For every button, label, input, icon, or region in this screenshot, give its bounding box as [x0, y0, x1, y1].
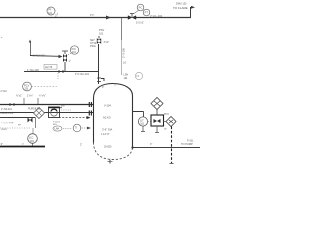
- wire dotted signal y=128: [0, 127, 31, 129]
- svg-text:101: 101: [72, 51, 77, 54]
- node flange ticks: [97, 77, 101, 79]
- meter box with rotor: [49, 107, 60, 118]
- svg-text:1"x¾": 1"x¾": [27, 95, 33, 98]
- svg-text:PSIG: PSIG: [90, 45, 96, 48]
- svg-text:3": 3": [102, 86, 104, 89]
- svg-text:TO FLARE: TO FLARE: [173, 6, 188, 10]
- svg-text:PT: PT: [145, 10, 149, 14]
- node boxed text above line: [44, 65, 57, 70]
- valve below line at x=30: [28, 118, 33, 123]
- wire bottom right line y=147: [133, 147, 201, 149]
- svg-text:3"x4": 3"x4": [104, 41, 110, 44]
- wire valve down: [64, 62, 66, 72]
- wire nozzle right y=112: [133, 111, 144, 113]
- instrument faint circle: [135, 72, 142, 79]
- svg-text:x 12'-0": x 12'-0": [101, 132, 110, 136]
- wire dashes to bubble: [63, 127, 72, 129]
- svg-text:PC: PC: [139, 5, 143, 9]
- svg-text:VENT: VENT: [1, 129, 7, 131]
- wire stub bubble: [32, 128, 34, 134]
- svg-text:3": 3": [150, 143, 152, 146]
- wire flare header right: [136, 17, 191, 19]
- wire flare header left: [0, 17, 129, 19]
- vessel bottom head dashed: [94, 143, 133, 160]
- wire box to right diamond: [164, 121, 167, 123]
- svg-text:101: 101: [48, 11, 53, 15]
- wire dashed signal y=117.5 to vessel: [52, 117, 87, 119]
- vessel V-101: [94, 84, 133, 148]
- svg-text:2"-N2: 2"-N2: [1, 90, 8, 93]
- svg-text:2": 2": [80, 144, 82, 147]
- svg-text:N2 KO: N2 KO: [103, 116, 111, 120]
- svg-text:201: 201: [25, 88, 30, 91]
- instrument PV bubble A: [137, 4, 144, 11]
- svg-text:1": 1": [69, 60, 71, 63]
- svg-text:101: 101: [140, 123, 145, 126]
- svg-text:2"-N2-101: 2"-N2-101: [1, 108, 12, 111]
- svg-text:P-101: P-101: [187, 140, 194, 143]
- valve PV vertical control valve: [62, 50, 68, 52]
- svg-text:LIC: LIC: [29, 135, 33, 139]
- svg-text:PSV: PSV: [99, 28, 104, 32]
- svg-text:PCV: PCV: [164, 113, 169, 116]
- svg-text:TO PUMP: TO PUMP: [181, 142, 193, 146]
- svg-text:1½": 1½": [90, 13, 94, 17]
- control box: [151, 115, 164, 126]
- wire signal to bubbles: [134, 10, 139, 14]
- svg-text:2"-FL-101: 2"-FL-101: [150, 14, 163, 18]
- svg-text:DWG 102: DWG 102: [176, 3, 187, 6]
- svg-text:LAH: LAH: [55, 128, 60, 131]
- svg-text:TI: TI: [75, 126, 77, 129]
- svg-text:FM: FM: [61, 105, 64, 108]
- flow arrow on flare header: [106, 16, 111, 20]
- svg-text:TT-101: TT-101: [53, 122, 61, 124]
- wire second line y=113 right: [45, 112, 94, 114]
- svg-text:1"-N2-102: 1"-N2-102: [33, 54, 45, 58]
- instrument LIC bubble: [28, 134, 38, 144]
- svg-text:3": 3": [1, 142, 3, 146]
- node oval tag: [53, 126, 62, 131]
- instrument bubble PIC-201: [23, 82, 32, 91]
- diamond right: [166, 117, 176, 127]
- instrument bubble TI: [73, 124, 81, 132]
- wire stub a: [23, 98, 25, 105]
- wire stub b: [37, 98, 39, 105]
- wire vertical drop x=121: [121, 18, 123, 40]
- wire bottom left thick line: [0, 146, 45, 148]
- svg-text:101: 101: [124, 77, 129, 80]
- svg-text:2"-V-100: 2"-V-100: [122, 47, 126, 58]
- wire down to gauge: [143, 112, 145, 118]
- wire below box: [156, 126, 158, 133]
- svg-text:V-104: V-104: [104, 104, 111, 108]
- wire N2 riser with arrow: [30, 41, 32, 56]
- wire dashed drop from right diamond: [171, 127, 173, 164]
- svg-text:1½"x1": 1½"x1": [136, 21, 144, 25]
- wire vertical drop x=35.5: [35, 118, 37, 128]
- node left flange blobs: [88, 102, 90, 107]
- instrument LG bubble: [138, 117, 147, 126]
- wire N2 header y=71.5: [24, 71, 99, 73]
- svg-text:LG: LG: [123, 62, 126, 65]
- svg-text:½": ½": [164, 127, 167, 131]
- svg-text:101: 101: [99, 32, 104, 36]
- wire dashes gauge to box: [148, 121, 151, 123]
- wire second line y=113 left: [0, 112, 34, 114]
- node top nozzle mark: [101, 79, 104, 82]
- svg-text:PI: PI: [49, 8, 52, 12]
- svg-text:1½"-N2-101: 1½"-N2-101: [75, 72, 89, 76]
- instrument PV bubble B: [143, 9, 150, 16]
- node bottom mark: [170, 163, 174, 165]
- valve FV-100: [128, 16, 136, 20]
- svg-text:30 600: 30 600: [104, 146, 112, 149]
- svg-text:1"-N2-103: 1"-N2-103: [27, 68, 39, 72]
- relief valve PSV-101: [98, 36, 100, 39]
- wire diamond to box: [156, 110, 158, 116]
- wire main N2 line y=104.5: [0, 104, 94, 106]
- filter strainer diamond: [34, 108, 45, 119]
- svg-text:¾"x½": ¾"x½": [39, 94, 46, 98]
- wire third line y=118: [0, 117, 36, 119]
- instrument PI-101: [47, 7, 55, 15]
- wire short signal: [32, 86, 58, 88]
- svg-text:101: 101: [30, 139, 35, 143]
- valve on main line: [10, 103, 15, 106]
- wire dash arrow to vessel: [82, 127, 88, 129]
- svg-text:3'-6" DIA: 3'-6" DIA: [102, 128, 112, 132]
- wire signal dashes bubble to valve: [67, 53, 71, 56]
- valve small on header: [59, 70, 64, 73]
- wire PSV to vessel top: [98, 44, 100, 84]
- wire below gauge: [142, 126, 144, 131]
- diamond top with X: [151, 98, 163, 110]
- wire small drain dashes: [57, 73, 59, 80]
- svg-text:2": 2": [115, 84, 117, 87]
- instrument PIC bubble: [70, 46, 78, 54]
- node vessel bottom nozzle: [109, 160, 111, 164]
- svg-text:HV-75: HV-75: [45, 65, 53, 69]
- wire signal dashes from box: [61, 109, 71, 111]
- svg-text:½"x1": ½"x1": [16, 94, 22, 98]
- wire LIC stem down: [32, 143, 34, 146]
- wire N2 horizontal to valve: [30, 55, 59, 58]
- wire riser to flare: [190, 7, 192, 18]
